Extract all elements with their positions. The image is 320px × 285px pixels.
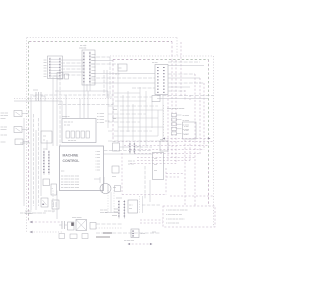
heater relay box	[153, 153, 164, 180]
wire rm 2	[135, 146, 152, 148]
svg-text:x xx: x xx	[184, 134, 188, 136]
dispenser box	[128, 200, 138, 213]
wire P4 right 2	[168, 77, 200, 79]
svg-text:xx xx: xx xx	[141, 233, 146, 235]
svg-text:xx xxxx: xx xxxx	[183, 120, 190, 122]
wire harness horizontal 5	[137, 157, 195, 159]
door switch	[14, 111, 29, 117]
wire P4 right 5	[168, 90, 185, 92]
wire P5 to P4 3	[94, 82, 155, 84]
svg-text:x: x	[52, 188, 53, 190]
svg-text:xxx: xxx	[113, 141, 116, 143]
wires J1 to P5	[61, 60, 83, 75]
wire disp down 2	[149, 180, 151, 202]
svg-text:xx xxxx: xx xxxx	[183, 115, 190, 117]
bottom arrow line	[128, 243, 153, 245]
dispenser comps	[140, 196, 143, 213]
wire vertical run 6	[40, 101, 42, 196]
connector J1 shell	[48, 56, 63, 79]
svg-text:xxxx: xxxx	[112, 176, 116, 178]
relay K2	[51, 184, 57, 195]
wire vertical run 9	[59, 77, 61, 146]
power box	[62, 119, 96, 143]
svg-text:xxx: xxx	[154, 164, 157, 166]
interlock cluster	[53, 73, 69, 80]
svg-text:xx xxx: xx xxx	[152, 62, 158, 64]
machine control title	[63, 153, 80, 163]
svg-text:xxx xxxx: xxx xxxx	[1, 115, 9, 117]
svg-text:xxxxx: xxxxx	[112, 215, 117, 217]
svg-text:x xxx: x xxx	[96, 160, 101, 162]
wire P4 top right 2	[168, 65, 204, 67]
text mid	[128, 161, 136, 166]
wire drop g	[106, 70, 108, 98]
svg-text:x xxx: x xxx	[184, 126, 189, 128]
svg-text:xxxxx: xxxxx	[1, 142, 6, 144]
wire P4 right 1	[168, 73, 195, 75]
svg-text:xx xx|x: xx xx|x	[80, 45, 87, 47]
vent box	[160, 139, 168, 151]
wire harness vertical 7	[189, 95, 191, 100]
wire harness vertical 6	[184, 140, 186, 206]
selector switch	[15, 139, 29, 145]
legend rows	[172, 114, 190, 136]
wire long solid 2	[14, 100, 62, 102]
wire P5 right 2	[91, 60, 113, 62]
svg-text:x xxx xxxx xxx: x xxx xxxx xxx	[166, 223, 180, 225]
console enclosure dashed border left	[28, 42, 30, 223]
heater switch	[41, 198, 48, 207]
wire rm 4	[104, 153, 152, 155]
power box pin labels	[97, 113, 104, 124]
wire harness vertical 3	[175, 60, 177, 164]
wire harness vertical 8	[189, 140, 191, 161]
connector J1	[49, 58, 61, 79]
svg-text:xxx: xxx	[154, 158, 157, 160]
svg-text:x xxx: x xxx	[184, 130, 189, 132]
wire P4 right 4	[168, 86, 190, 88]
svg-text:xx xxx xx: xx xxx xx	[68, 140, 76, 142]
aux box	[112, 166, 119, 178]
svg-text:xxx: xxx	[44, 62, 47, 64]
svg-text:x xxx: x xxx	[96, 154, 101, 156]
svg-text:xxxxxx: xxxxxx	[116, 198, 122, 200]
heater feed wire 2	[166, 176, 179, 178]
machine control board box	[60, 146, 104, 191]
wire below MC 1	[52, 191, 54, 214]
label above connector P5	[79, 45, 87, 50]
wire harness horizontal 4	[134, 153, 200, 155]
mesh relay box	[152, 96, 160, 102]
svg-text:xx xxx: xx xxx	[128, 164, 135, 166]
wire drop h	[109, 57, 111, 95]
svg-text:xxx xxx: xxx xxx	[25, 211, 32, 213]
power box components	[66, 131, 89, 138]
svg-text:xxxx: xxxx	[92, 54, 96, 56]
wire P5 tail 2	[86, 84, 88, 91]
wire harness horizontal 3	[130, 149, 204, 151]
dashed sub-box	[122, 153, 166, 195]
svg-text:xxx xx xxxx: xxx xx xxxx	[20, 143, 30, 145]
legend detail box	[183, 122, 197, 139]
wire harness vertical 10	[199, 78, 201, 154]
wire disp h	[105, 212, 118, 214]
wire harness horizontal 7	[130, 163, 176, 165]
svg-text:xxx xxx: xxx xxx	[1, 127, 8, 129]
run capacitor	[59, 221, 67, 229]
svg-text:x xxx: x xxx	[96, 170, 101, 172]
svg-text:x xxxx xxx xx xxxx x: x xxxx xxx xx xxxx x	[166, 218, 185, 220]
svg-text:xxxx xxx: xxxx xxx	[1, 113, 9, 115]
svg-text:xx xxxxx: xx xxxxx	[25, 213, 33, 215]
drain solenoid	[52, 200, 59, 209]
second row comps	[59, 234, 88, 239]
svg-text:x x xxxx: x x xxxx	[97, 116, 104, 118]
connector P3	[118, 200, 125, 218]
start relay dark mark	[71, 223, 74, 226]
svg-text:xxx: xxx	[160, 139, 163, 141]
wire P5 tail 3	[89, 84, 91, 91]
wire rm 3	[104, 150, 152, 152]
pump label	[113, 186, 121, 192]
svg-text:xxx xxxx: xxx xxxx	[100, 210, 108, 212]
bottom label left	[25, 211, 33, 216]
svg-text:xx xxxx xx xxx xxxx: xx xxxx xx xxx xxxx	[61, 181, 80, 183]
wire vertical x47	[46, 140, 48, 150]
wire to notes box 1	[140, 219, 163, 221]
svg-text:xxx: xxx	[44, 68, 47, 70]
connector P2	[43, 151, 50, 175]
svg-text:xxxx xxxxx: xxxx xxxxx	[72, 217, 82, 219]
svg-text:xx xxxx xx xxx xxxx: xx xxxx xx xxx xxxx	[61, 178, 80, 180]
wire disp v2	[110, 192, 112, 213]
wire drop e	[87, 91, 89, 118]
svg-text:xxxx: xxxx	[114, 209, 118, 211]
svg-text:x x xxxx: x x xxxx	[97, 119, 104, 121]
wire vertical run 2	[30, 96, 32, 210]
svg-text:xxx: xxx	[44, 59, 47, 61]
bottom arrow dotted	[30, 231, 63, 234]
console enclosure dotted border left	[26, 38, 28, 233]
connector P5 pin labels	[92, 54, 96, 85]
svg-text:xxx: xxx	[44, 65, 47, 67]
svg-text:xxxx xx: xxxx xx	[128, 161, 136, 163]
svg-text:MACHINE: MACHINE	[63, 153, 80, 157]
heater feed wire 1	[166, 173, 183, 175]
wire P4 right 3	[168, 82, 204, 84]
wire below P4 2	[157, 98, 209, 100]
svg-text:xxx: xxx	[154, 170, 157, 172]
wire drop f	[103, 70, 105, 95]
svg-text:xxxx xxx: xxxx xxx	[100, 212, 108, 214]
svg-text:xxx xxxx xxx: xxx xxxx xxx	[44, 211, 55, 213]
svg-text:xx: xx	[43, 140, 45, 142]
notes box bottom right	[163, 206, 215, 227]
bottom mid cluster pins	[132, 231, 134, 237]
latch switch labels	[1, 127, 8, 132]
svg-text:x xxx xxxx xx xxx: x xxx xxxx xx xxx	[166, 214, 183, 216]
wire below P4 1	[157, 95, 214, 97]
relay K1	[43, 179, 50, 186]
wire harness vertical 4	[180, 42, 182, 97]
wire vertical run 3	[33, 114, 35, 206]
connector P4	[155, 65, 168, 95]
svg-text:xxx: xxx	[44, 76, 47, 78]
connector P5	[83, 52, 91, 85]
wire drop a	[61, 101, 63, 118]
power box text	[64, 122, 74, 127]
bottom wire 3	[96, 232, 160, 234]
wire pump up 1	[99, 177, 101, 183]
svg-text:xx x: xx x	[129, 205, 133, 207]
wire harness vertical 2	[171, 60, 173, 158]
wire drop b	[65, 95, 67, 118]
wire harness vertical 1	[167, 95, 169, 160]
cabinet dotted border top	[110, 55, 214, 57]
wire P5 to P4 1	[91, 73, 155, 75]
svg-text:xxx: xxx	[129, 208, 132, 210]
svg-text:x x xxxx: x x xxxx	[97, 122, 104, 124]
wire harness horizontal 1	[118, 141, 214, 143]
svg-text:xxx: xxx	[113, 118, 116, 120]
wire pump h	[94, 178, 100, 180]
svg-text:xxx: xxx	[44, 71, 47, 73]
svg-text:xx xxxx xxx: xx xxxx xxx	[124, 240, 134, 242]
wire disp right	[142, 204, 160, 206]
svg-text:CONTROL: CONTROL	[63, 159, 80, 163]
wire harness vertical 11	[203, 83, 205, 150]
svg-text:x xxxx xxxx xx xxxx xxx: x xxxx xxxx xx xxxx xxx	[166, 210, 189, 212]
wire P5 right 3	[91, 63, 118, 65]
cabinet dashed border top	[113, 59, 209, 61]
aux relay box	[41, 131, 52, 143]
notes box text	[166, 210, 189, 225]
svg-text:x xxx: x xxx	[96, 163, 101, 165]
wire vertical run 4	[35, 130, 37, 210]
svg-text:xx xx: xx xx	[115, 74, 120, 76]
wire vertical run 8	[56, 77, 58, 146]
legend arrow line	[163, 137, 211, 139]
svg-text:xxx xx xx: xxx xx xx	[64, 122, 74, 124]
svg-text:xxxxx: xxxxx	[1, 118, 6, 120]
svg-text:xx xxxx xx xxx xxxx: xx xxxx xx xxx xxxx	[61, 187, 80, 189]
wire disp v1	[107, 190, 109, 213]
svg-text:xxxx: xxxx	[43, 149, 47, 151]
svg-text:xxxx: xxxx	[92, 67, 96, 69]
wire mesh centre	[108, 64, 163, 152]
wire drop d	[83, 91, 85, 118]
thermal fuse box	[118, 64, 127, 71]
wire disp v3	[113, 190, 115, 213]
svg-text:x xxx: x xxx	[96, 151, 101, 153]
cabinet dashed border left drop	[112, 60, 114, 141]
machine control terminal text	[61, 176, 80, 190]
wire vertical run 1	[23, 118, 25, 206]
wire long solid	[55, 90, 108, 92]
bottom text block	[100, 209, 118, 218]
svg-text:xx|xxx|x: xx|xxx|x	[79, 48, 87, 50]
machine control pin list	[96, 151, 101, 172]
svg-text:xxxx: xxxx	[92, 57, 96, 59]
pre-notes dashed line	[170, 195, 214, 197]
connector P5 shell	[82, 50, 95, 85]
svg-text:xxxx: xxxx	[92, 63, 96, 65]
wire drop c	[79, 99, 81, 119]
wire P5 to P4 2	[91, 77, 155, 79]
bottom mid cluster	[131, 229, 145, 238]
wire harness vertical 9	[194, 74, 196, 206]
svg-text:xxx xxxx xxx xxxxx xxxxx xxx: xxx xxxx xxx xxxxx xxxxx xxx	[20, 213, 46, 215]
svg-text:xxxx: xxxx	[92, 79, 96, 81]
svg-text:xxxx xxxx xx xxxxx: xxxx xxxx xx xxxxx	[167, 108, 185, 110]
console enclosure dotted border top	[27, 37, 177, 39]
svg-text:xx xx: xx xx	[105, 121, 110, 123]
console dashed border right drop	[171, 42, 173, 60]
wire vertical run 5	[38, 118, 40, 206]
drive motor	[76, 220, 87, 231]
svg-text:xxxx: xxxx	[92, 70, 96, 72]
wire rm 1	[120, 146, 131, 148]
wire pump up 2	[103, 177, 105, 183]
svg-text:x x xxxx: x x xxxx	[97, 113, 104, 115]
wire below MC 2	[56, 191, 58, 220]
cluster top-right-mid a	[113, 141, 120, 151]
wire long dashed	[30, 94, 113, 96]
wire long dotted	[14, 98, 113, 100]
connector J1 wires	[51, 59, 59, 76]
wire P4 left 1	[132, 87, 155, 89]
wire P5 tail 1	[83, 84, 85, 91]
svg-text:xxxx: xxxx	[114, 212, 118, 214]
heater relay text	[154, 158, 157, 172]
cluster top-right-mid b	[129, 143, 135, 154]
svg-text:xxxxxx: xxxxxx	[1, 129, 7, 131]
start relay	[68, 222, 75, 230]
wire vertical run 7	[52, 77, 54, 146]
svg-text:x xxx: x xxx	[96, 157, 101, 159]
svg-text:xxxxx xx: xxxxx xx	[62, 116, 70, 118]
console dotted border right drop	[176, 38, 178, 57]
wire harness horizontal 6	[137, 160, 190, 162]
cabinet dotted border right	[213, 56, 215, 227]
svg-text:xx xxxx xx xxx xxxx: xx xxxx xx xxx xxxx	[61, 184, 80, 186]
overload protector	[90, 223, 96, 230]
wire P5 right 1	[91, 56, 110, 58]
bottom wire 1	[96, 223, 122, 225]
console enclosure dashed border top	[29, 41, 172, 43]
latch switch	[14, 127, 29, 133]
svg-text:xxx: xxx	[119, 68, 122, 70]
wire disp down 1	[144, 166, 146, 199]
connector J1 pin labels	[44, 59, 47, 78]
svg-text:xxxx: xxxx	[113, 109, 117, 111]
svg-text:xxx: xxx	[43, 136, 46, 138]
pump motor	[100, 184, 111, 194]
wire long dashed 2	[58, 104, 113, 106]
svg-text:xxxx: xxxx	[152, 232, 156, 234]
bottom wire 4	[96, 236, 110, 238]
wire to notes box 2	[140, 222, 163, 224]
transformer	[33, 92, 45, 101]
svg-text:xxx xxx: xxx xxx	[1, 135, 8, 137]
wire harness horizontal 2	[124, 145, 209, 147]
svg-text:xxxxx: xxxxx	[33, 90, 38, 92]
svg-text:xx xxxx xx xxx xxxx: xx xxxx xx xxx xxxx	[61, 176, 80, 178]
svg-text:xx xxx: xx xxx	[64, 125, 71, 127]
wire harness vertical 5	[184, 90, 186, 100]
door switch labels	[1, 113, 9, 120]
legend left bracket	[163, 105, 165, 136]
svg-text:x xxx: x xxx	[96, 167, 101, 169]
wire P4 top right 1	[168, 61, 200, 63]
svg-text:xxx: xxx	[44, 73, 47, 75]
cabinet dashed border right	[208, 60, 210, 207]
bottom arrow dashed	[30, 221, 63, 224]
bottom wire 2	[96, 227, 122, 229]
